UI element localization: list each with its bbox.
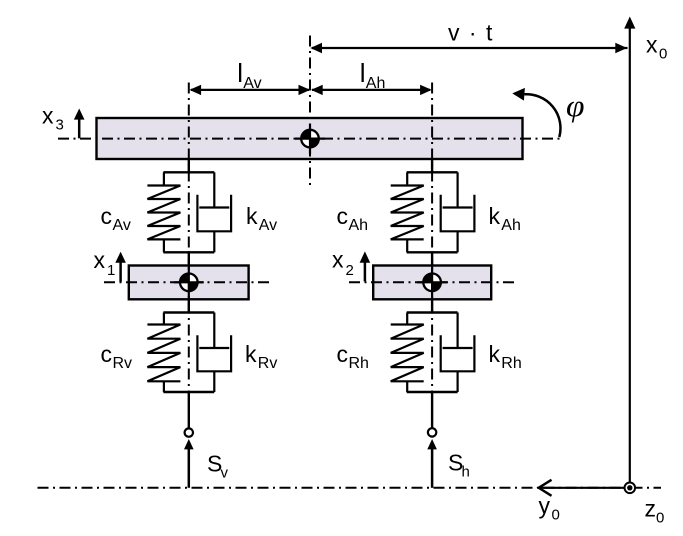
lAv left arrowhead — [189, 85, 201, 95]
front tire bottom bar — [163, 391, 214, 393]
lAv right arrowhead — [299, 85, 311, 95]
rear tire top bar — [407, 311, 458, 313]
front axle horizontal dash-dot line — [104, 281, 274, 283]
origin z0 circle — [625, 483, 636, 494]
spring cAh stub top — [406, 172, 408, 185]
svg-text:l: l — [237, 58, 243, 88]
front axle vertical dash-dot line — [188, 83, 190, 393]
svg-text:Rv: Rv — [258, 355, 278, 372]
Sh arrowhead — [427, 439, 437, 449]
spring cRh stub top — [406, 313, 408, 325]
rod rear A-assembly to rear axle — [431, 251, 433, 266]
spring cAv zigzag — [147, 186, 180, 240]
svg-text:v: v — [221, 465, 229, 482]
spring cAv stub bottom — [163, 239, 165, 252]
svg-text:φ: φ — [566, 88, 585, 123]
damper kAh lower rod — [457, 231, 459, 252]
damper kRv cylinder cup — [197, 335, 231, 371]
damper kAh cylinder cup — [441, 195, 475, 232]
damper kAh piston plate — [443, 206, 473, 208]
spring cAh zigzag — [391, 186, 424, 240]
lAh left arrowhead — [311, 85, 323, 95]
y0 open arrowhead — [539, 480, 552, 496]
svg-text:c: c — [101, 203, 113, 229]
svg-text:z: z — [645, 496, 657, 522]
Sv arrowhead — [184, 439, 194, 449]
ground dash-dot line — [38, 487, 662, 489]
front axle CM symbol — [174, 267, 204, 298]
svg-text:Av: Av — [113, 217, 131, 234]
damper kRv piston rod — [213, 313, 215, 349]
spring cRh zigzag — [391, 325, 424, 382]
body CM symbol — [295, 124, 325, 155]
svg-text:k: k — [489, 341, 501, 367]
rod body to rear A-assembly — [431, 158, 433, 173]
svg-text:k: k — [489, 203, 501, 229]
svg-text:0: 0 — [656, 510, 664, 527]
y0 axis line — [540, 487, 627, 489]
rear axle horizontal dash-dot line — [349, 281, 518, 283]
svg-text:0: 0 — [552, 507, 560, 524]
svg-text:c: c — [337, 203, 349, 229]
damper kAv lower rod — [213, 231, 215, 252]
svg-text:Av: Av — [243, 75, 261, 92]
damper kRh lower rod — [457, 371, 459, 392]
rear joint circle — [428, 428, 436, 436]
svg-text:x: x — [646, 32, 658, 58]
svg-text:Rh: Rh — [349, 355, 369, 372]
spring cAv stub top — [163, 172, 165, 185]
svg-text:Rh: Rh — [501, 355, 521, 372]
x0 axis arrowhead — [624, 17, 635, 29]
x0 axis line — [629, 26, 631, 488]
svg-text:0: 0 — [659, 46, 667, 63]
origin z0 dot — [627, 485, 632, 490]
rear suspension top bar — [407, 171, 458, 173]
svg-text:Rv: Rv — [113, 355, 133, 372]
svg-text:1: 1 — [107, 262, 115, 279]
rod front A-assembly to front axle — [188, 251, 190, 266]
body horizontal dash-dot center line — [58, 138, 560, 140]
damper kAv piston rod — [213, 172, 215, 207]
Sh arrow line — [431, 448, 434, 488]
svg-text:k: k — [245, 341, 257, 367]
spring cAh stub bottom — [406, 239, 408, 252]
damper kAh piston rod — [457, 172, 459, 207]
v*t left arrowhead — [310, 43, 322, 53]
rod rear axle to rear R-assembly — [431, 298, 433, 314]
damper kAv piston plate — [199, 206, 229, 208]
damper kRv piston plate — [199, 347, 229, 349]
phi rotation arc — [524, 94, 560, 137]
lAv dimension line — [191, 89, 309, 91]
svg-text:Av: Av — [259, 217, 277, 234]
svg-text:k: k — [246, 203, 258, 229]
svg-text:c: c — [101, 341, 113, 367]
rod body to front A-assembly — [188, 158, 190, 173]
spring cRv zigzag — [147, 325, 180, 382]
svg-text:x: x — [332, 247, 344, 273]
front axle mass rectangle — [129, 266, 249, 300]
svg-text:Ah: Ah — [501, 217, 521, 234]
rear axle vertical dash-dot line — [431, 83, 433, 393]
body mass rectangle — [97, 118, 523, 159]
svg-text:2: 2 — [346, 262, 354, 279]
v*t dimension line — [312, 47, 628, 49]
lAh right arrowhead — [420, 85, 432, 95]
rear tire bottom bar — [407, 391, 458, 393]
spring cRv stub top — [163, 313, 165, 325]
svg-text:h: h — [462, 464, 470, 481]
rod front R-assembly to joint circle — [188, 391, 190, 429]
svg-text:Ah: Ah — [349, 217, 369, 234]
spring cRv stub bottom — [163, 381, 165, 392]
rear suspension bottom bar — [407, 251, 458, 253]
svg-text:l: l — [360, 58, 366, 88]
damper kAv cylinder cup — [197, 195, 231, 232]
svg-text:x: x — [42, 103, 54, 129]
svg-text:x: x — [94, 247, 106, 273]
front joint circle — [185, 428, 193, 436]
spring cRh stub bottom — [406, 381, 408, 392]
svg-text:c: c — [337, 341, 349, 367]
v*t right arrowhead — [615, 43, 627, 53]
svg-text:Ah: Ah — [366, 75, 386, 92]
svg-text:y: y — [539, 493, 551, 519]
rear axle mass rectangle — [373, 266, 491, 300]
svg-text:v · t: v · t — [448, 20, 494, 46]
front suspension bottom bar — [163, 251, 214, 253]
center-of-mass vertical dash-dot line — [309, 36, 311, 186]
rear axle CM symbol — [417, 267, 447, 298]
x3 arrow — [78, 119, 81, 139]
damper kRh cylinder cup — [441, 335, 475, 371]
damper kRv lower rod — [213, 371, 215, 392]
rod rear R-assembly to joint circle — [431, 391, 433, 428]
Sv arrow line — [188, 448, 191, 488]
phi arc arrowhead — [512, 88, 525, 101]
rod front axle to front R-assembly — [188, 298, 190, 314]
svg-text:3: 3 — [56, 117, 64, 134]
damper kRh piston rod — [457, 313, 459, 349]
lAh dimension line — [312, 89, 430, 91]
front tire top bar — [163, 311, 214, 313]
x2 arrow — [364, 262, 367, 282]
x1 arrow — [119, 262, 122, 282]
front suspension top bar — [163, 171, 214, 173]
damper kRh piston plate — [443, 347, 473, 349]
